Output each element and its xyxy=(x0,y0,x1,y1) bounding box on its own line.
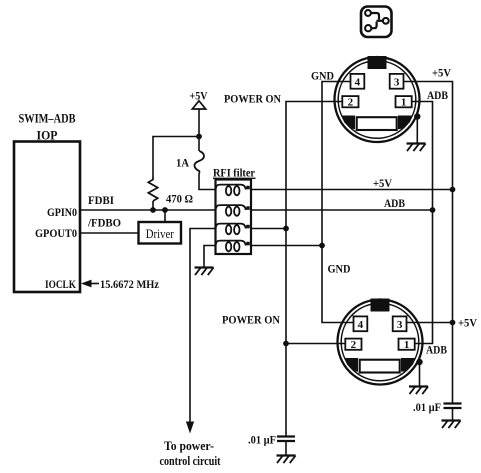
svg-text:GND: GND xyxy=(311,69,334,83)
svg-text:/FDBO: /FDBO xyxy=(87,216,121,230)
wire top shell to ground xyxy=(416,117,418,144)
svg-text:IOCLK: IOCLK xyxy=(45,277,77,291)
wire bottom pin3 to +5V vertical xyxy=(407,322,453,324)
resistor R1 470 Ohm xyxy=(148,178,193,211)
junction node ADB rail/vertical xyxy=(430,207,436,213)
IC U1 SWIM-ADB IOP box xyxy=(14,111,80,293)
ADB icon xyxy=(361,7,392,38)
junction node resistor/FDBI xyxy=(150,207,156,213)
svg-text:ADB: ADB xyxy=(384,196,405,210)
inductor L4 row 4 xyxy=(216,241,250,252)
wire +5V from top pin3 down right side xyxy=(404,82,453,404)
wire C1 to ground xyxy=(285,441,287,456)
svg-text:POWER ON: POWER ON xyxy=(224,92,281,106)
svg-text:.01 µF: .01 µF xyxy=(248,433,276,447)
label To power-control circuit xyxy=(160,439,222,468)
svg-text:+5V: +5V xyxy=(458,316,477,330)
junction node +5V/bottom pin3 xyxy=(450,320,456,326)
wire /FDBO from GPOUT0 to driver xyxy=(80,232,139,234)
ground top connector shell xyxy=(407,144,426,152)
wire row4 to GND vertical xyxy=(251,245,322,247)
connector J1 mini-DIN-4 top xyxy=(335,56,420,142)
svg-text:+5V: +5V xyxy=(432,66,451,80)
ground C2 xyxy=(442,421,461,429)
wire fuse to RFI filter row 1 xyxy=(199,172,216,190)
connector J2 mini-DIN-4 bottom xyxy=(338,299,423,385)
junction node driver output/FDBI xyxy=(162,207,168,213)
svg-text:4: 4 xyxy=(355,76,361,88)
svg-text:.01 µF: .01 µF xyxy=(413,400,441,414)
svg-text:ADB: ADB xyxy=(427,88,448,102)
inductor L3 row 3 xyxy=(216,224,250,235)
ground RFI filter xyxy=(195,268,214,276)
capacitor C2 .01 uF xyxy=(413,400,462,414)
svg-text:2: 2 xyxy=(351,339,357,351)
svg-text:GND: GND xyxy=(328,262,351,276)
node bottom shell ground dot xyxy=(416,359,422,365)
wire POWER ON vertical and to top connector pin2 xyxy=(286,102,343,437)
svg-text:POWER ON: POWER ON xyxy=(222,313,280,327)
svg-text:3: 3 xyxy=(394,76,400,88)
svg-text:4: 4 xyxy=(358,319,364,331)
power +5V supply symbol xyxy=(190,89,208,152)
ground C1 xyxy=(277,456,296,464)
clock input arrow 15.6672 MHz xyxy=(81,277,160,291)
svg-text:2: 2 xyxy=(348,97,354,109)
svg-text:SWIM–ADB: SWIM–ADB xyxy=(19,111,76,126)
RFI filter box FL1 xyxy=(213,166,256,255)
wire POWER ON to bottom connector pin2 xyxy=(286,343,346,345)
wire row3 left to power-control drop xyxy=(190,229,216,423)
wire C2 to ground xyxy=(452,408,454,421)
junction node +5V/resistor branch xyxy=(196,134,202,140)
fuse F1 1A xyxy=(176,151,204,172)
inductor L2 row 2 xyxy=(216,205,250,216)
arrow to power-control circuit xyxy=(186,422,194,434)
wire +5V rail row1 to right xyxy=(251,189,453,191)
svg-text:15.6672 MHz: 15.6672 MHz xyxy=(100,277,160,291)
svg-text:ADB: ADB xyxy=(426,343,447,357)
ground bottom connector shell xyxy=(409,387,428,395)
wire row4 left to ground xyxy=(204,246,216,268)
junction node POWER ON/bottom pin2 xyxy=(283,341,289,347)
node top shell ground dot xyxy=(414,113,420,119)
svg-text:1A: 1A xyxy=(176,156,189,170)
wire row3 to POWER ON vertical xyxy=(251,228,286,230)
driver U2 box xyxy=(139,222,182,244)
wire GND from top pin4 down to bottom pin4 xyxy=(322,82,355,323)
svg-text:IOP: IOP xyxy=(37,128,58,143)
wire ADB from top pin1 down to bottom pin1 xyxy=(411,102,433,344)
svg-text:470 Ω: 470 Ω xyxy=(166,192,193,206)
wire resistor top to +5V branch xyxy=(153,137,199,179)
svg-text:1: 1 xyxy=(401,97,407,109)
junction node GND/row4 xyxy=(319,243,325,249)
svg-text:control circuit: control circuit xyxy=(160,454,222,468)
svg-text:+5V: +5V xyxy=(373,176,392,190)
wire FDBI from GPIN0 to RFI filter xyxy=(80,209,216,211)
junction node POWER ON/row3 xyxy=(283,226,289,232)
wire ADB rail row2 to right xyxy=(251,209,433,211)
svg-text:1: 1 xyxy=(404,339,410,351)
svg-text:3: 3 xyxy=(397,319,403,331)
inductor L1 row 1 xyxy=(216,185,250,196)
svg-text:RFI filter: RFI filter xyxy=(213,166,256,180)
capacitor C1 .01 uF xyxy=(248,433,295,447)
junction node +5V rail/vertical xyxy=(450,187,456,193)
wire bottom shell to ground xyxy=(419,362,421,386)
svg-text:To power-: To power- xyxy=(164,439,214,453)
wire driver output up to FDBI xyxy=(164,210,166,222)
svg-text:FDBI: FDBI xyxy=(88,193,114,207)
svg-text:Driver: Driver xyxy=(146,227,175,241)
svg-text:GPIN0: GPIN0 xyxy=(47,205,77,219)
svg-text:GPOUT0: GPOUT0 xyxy=(35,226,77,240)
